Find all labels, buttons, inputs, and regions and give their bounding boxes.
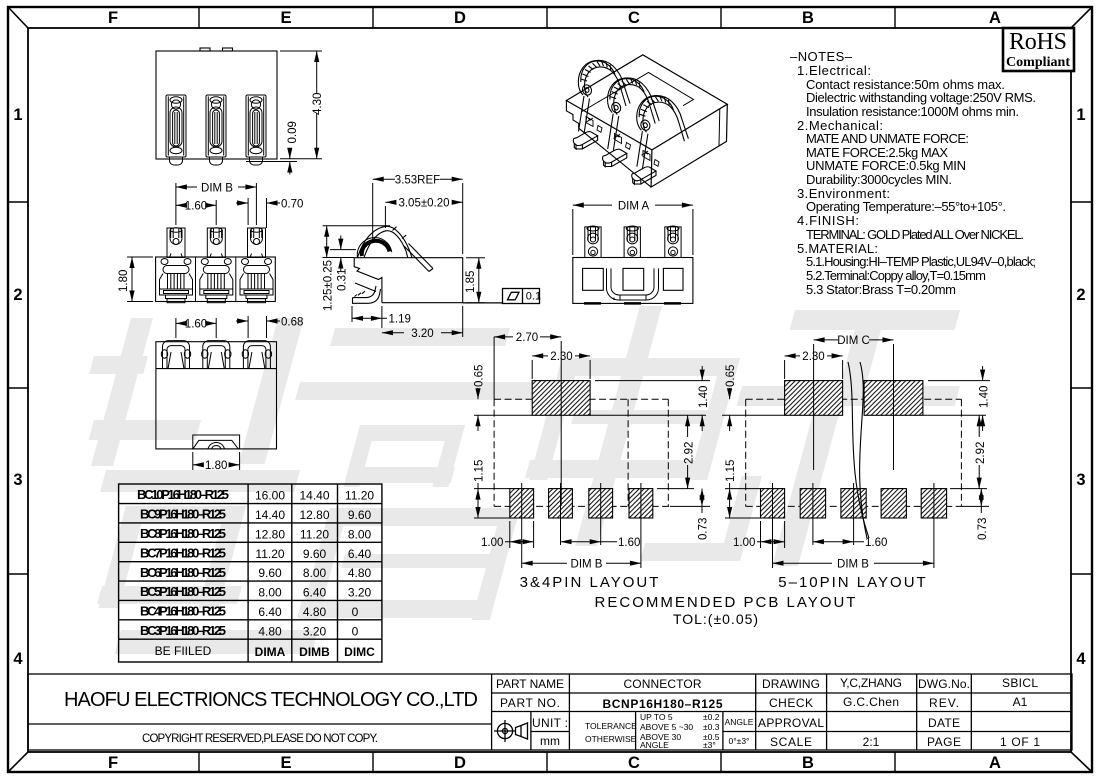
layout2 pad bottom extension left	[722, 414, 785, 416]
svg-text:COPYRIGHT RESERVED,PLEASE DO N: COPYRIGHT RESERVED,PLEASE DO NOT COPY.	[142, 733, 378, 745]
layout2 big pad 2	[864, 381, 923, 416]
layout1 small pad centerlines	[522, 483, 641, 568]
layout2 small pad 2	[800, 489, 825, 518]
svg-text:DIM B: DIM B	[571, 559, 603, 571]
svg-text:1.15: 1.15	[725, 460, 737, 482]
svg-text:0: 0	[352, 624, 359, 638]
view3 dim 1.80	[193, 452, 240, 470]
svg-text:UNMATE FORCE:0.5kg MIN: UNMATE FORCE:0.5kg MIN	[806, 158, 966, 173]
svg-text:Insulation resistance:1000M oh: Insulation resistance:1000M ohms min.	[806, 104, 1019, 119]
svg-text:4.80: 4.80	[303, 605, 327, 619]
layout2 dim 0.73	[980, 489, 982, 513]
layout2 big pad centerlines	[814, 344, 894, 470]
svg-text:BC4P16H180–R125: BC4P16H180–R125	[140, 604, 226, 619]
svg-text:5.2.Terminal:Coppy alloy,T=0.1: 5.2.Terminal:Coppy alloy,T=0.15mm	[806, 268, 986, 283]
svg-text:11.20: 11.20	[300, 527, 329, 541]
svg-text:PART NAME: PART NAME	[496, 677, 564, 691]
zone row dividers right	[1071, 202, 1092, 574]
svg-text:11.20: 11.20	[255, 547, 284, 561]
svg-text:F: F	[108, 9, 118, 27]
view2 dim 1.60	[176, 200, 216, 225]
svg-text:1.80: 1.80	[118, 270, 130, 292]
side dim 3.05±0.20	[385, 202, 462, 228]
projection symbol	[494, 720, 528, 742]
svg-text:5.3 Stator:Brass T=0.20mm: 5.3 Stator:Brass T=0.20mm	[806, 282, 956, 297]
layout2 dashed component outline	[746, 399, 962, 506]
svg-text:1.25±0.25: 1.25±0.25	[323, 260, 335, 311]
svg-text:B: B	[802, 754, 814, 772]
svg-text:Dielectric withstanding voltag: Dielectric withstanding voltage:250V RMS…	[806, 90, 1036, 105]
layout2 dim 0.65	[729, 388, 731, 431]
iso slot marks on front face	[586, 117, 659, 167]
svg-text:DWG.No.: DWG.No.	[918, 677, 970, 691]
svg-text:DIM B: DIM B	[837, 559, 869, 571]
side dim 0.31	[330, 236, 356, 272]
svg-text:BC8P16H180–R125: BC8P16H180–R125	[140, 526, 226, 541]
layout1 dim 1.60 pitch	[561, 541, 618, 543]
svg-text:1.00: 1.00	[481, 537, 503, 549]
view2 contact tabs	[167, 228, 266, 258]
RoHS compliant box	[1003, 28, 1074, 71]
svg-text:MATE AND UNMATE FORCE:: MATE AND UNMATE FORCE:	[806, 131, 969, 146]
layout1 dim 2.70	[494, 337, 561, 399]
svg-text:9.60: 9.60	[348, 508, 372, 522]
svg-text:4: 4	[1076, 650, 1086, 668]
zone numbers left 1 2 3 4	[13, 106, 23, 668]
svg-text:Durability:3000cycles MIN.: Durability:3000cycles MIN.	[806, 172, 952, 187]
layout2 dim DIM B	[773, 562, 934, 564]
svg-text:DIMA: DIMA	[255, 645, 286, 659]
svg-text:12.80: 12.80	[299, 508, 329, 522]
iso contact 1 (arch + strap + foot)	[573, 60, 630, 149]
side view spring arch	[358, 226, 434, 271]
svg-text:1.Electrical:: 1.Electrical:	[797, 63, 871, 78]
svg-text:G.C.Chen: G.C.Chen	[843, 695, 899, 709]
svg-text:1.60: 1.60	[618, 537, 640, 549]
svg-text:12.80: 12.80	[255, 527, 285, 541]
layout2 dim 1.40	[982, 366, 984, 431]
svg-text:BC10P16H180–R125: BC10P16H180–R125	[137, 487, 229, 502]
svg-text:1.40: 1.40	[978, 386, 990, 408]
svg-text:DATE: DATE	[928, 716, 960, 730]
layout2 small pad 4	[881, 489, 906, 518]
corner diagonal bottom-left	[8, 752, 28, 772]
svg-text:±0.2: ±0.2	[703, 712, 720, 722]
svg-text:14.40: 14.40	[255, 508, 285, 522]
svg-text:RECOMMENDED PCB LAYOUT: RECOMMENDED PCB LAYOUT	[595, 594, 858, 611]
dim DIM A	[573, 205, 693, 255]
side dim 1.25±0.25	[323, 226, 391, 258]
svg-text:4.30: 4.30	[312, 93, 324, 115]
svg-text:0.65: 0.65	[725, 365, 737, 387]
view3 top contacts	[161, 341, 271, 369]
svg-text:BC9P16H180–R125: BC9P16H180–R125	[140, 507, 226, 522]
svg-text:mm: mm	[540, 734, 560, 748]
svg-text:BC7P16H180–R125: BC7P16H180–R125	[140, 545, 226, 560]
zone numbers right	[1076, 106, 1086, 668]
svg-text:BC5P16H180–R125: BC5P16H180–R125	[140, 584, 226, 599]
watermark zi (light gray)	[737, 310, 960, 566]
zone letters top F E D C B A	[108, 9, 1001, 27]
view2 dim 1.80	[127, 257, 153, 302]
iso top opening	[582, 73, 694, 156]
layout2 big pad 1	[785, 381, 843, 416]
svg-text:Compliant: Compliant	[1006, 55, 1070, 70]
svg-text:3.20: 3.20	[411, 328, 433, 340]
svg-text:±3°: ±3°	[703, 740, 716, 750]
svg-text:3.53REF: 3.53REF	[395, 175, 440, 187]
svg-text:1: 1	[13, 106, 22, 124]
dimA feet marks	[584, 302, 681, 305]
layout1 dim 0.73	[701, 489, 703, 513]
layout2 dim 1.00	[757, 521, 785, 548]
view2 dim DIM B	[176, 183, 257, 225]
layout2 dim 1.60 pitch	[813, 541, 864, 543]
svg-text:OTHERWISE: OTHERWISE	[585, 734, 637, 744]
svg-text:SBICL: SBICL	[1002, 676, 1038, 690]
corner diagonal top-left	[8, 7, 28, 28]
svg-text:1.40: 1.40	[698, 386, 710, 408]
iso body front-left face	[566, 101, 651, 188]
svg-text:2: 2	[1076, 286, 1085, 304]
layout2 dim 2.92	[978, 415, 980, 488]
svg-text:UNIT :: UNIT :	[532, 716, 568, 730]
svg-text:9.60: 9.60	[258, 566, 282, 580]
svg-text:UP TO 5: UP TO 5	[640, 712, 673, 722]
svg-text:C: C	[628, 9, 640, 27]
svg-text:0.1: 0.1	[526, 291, 541, 303]
title block labels	[496, 676, 1040, 749]
dimA body	[573, 258, 693, 304]
svg-text:4.80: 4.80	[258, 624, 282, 638]
svg-text:DIM A: DIM A	[618, 201, 650, 213]
svg-text:A: A	[989, 754, 1001, 772]
svg-text:APPROVAL: APPROVAL	[758, 716, 824, 730]
watermark hao (light gray)	[89, 318, 318, 654]
side dim 1.19	[352, 306, 387, 328]
svg-text:A1: A1	[1013, 695, 1028, 709]
zone letters bottom	[108, 754, 1001, 772]
svg-text:E: E	[280, 9, 291, 27]
svg-text:SCALE: SCALE	[770, 735, 812, 749]
svg-text:CHECK: CHECK	[769, 696, 813, 710]
iso contact 3	[632, 96, 689, 185]
svg-text:PAGE: PAGE	[927, 735, 961, 749]
svg-text:RoHS: RoHS	[1009, 29, 1067, 55]
svg-text:DIMC: DIMC	[344, 645, 375, 659]
svg-text:PART NO.: PART NO.	[500, 696, 560, 710]
svg-text:0.73: 0.73	[977, 518, 989, 540]
svg-text:F: F	[108, 754, 118, 772]
svg-text:Y,C,ZHANG: Y,C,ZHANG	[840, 676, 902, 690]
side dim 3.53REF	[373, 179, 463, 254]
layout1 dim 2.30	[532, 356, 590, 379]
svg-text:TERMINAL: GOLD Plated ALL Ove: TERMINAL: GOLD Plated ALL Over NICKEL.	[806, 227, 1024, 242]
title block	[28, 674, 1072, 750]
svg-text:BC3P16H180–R125: BC3P16H180–R125	[140, 623, 226, 638]
svg-text:CONNECTOR: CONNECTOR	[624, 677, 702, 691]
svg-text:14.40: 14.40	[299, 489, 329, 503]
layout1 small pad 3	[589, 489, 613, 518]
svg-text:BE FIILED: BE FIILED	[155, 644, 212, 658]
svg-text:2: 2	[13, 286, 22, 304]
layout1 big pad	[532, 381, 590, 416]
svg-text:ABOVE 5 ~30: ABOVE 5 ~30	[640, 722, 693, 732]
svg-text:3: 3	[13, 471, 22, 489]
svg-text:3.20: 3.20	[348, 586, 372, 600]
svg-text:11.20: 11.20	[345, 489, 374, 503]
layout1 small pad 2	[549, 489, 573, 518]
svg-text:5.1.Housing:HI–TEMP Plastic,UL: 5.1.Housing:HI–TEMP Plastic,UL94V–0,blac…	[806, 254, 1036, 269]
svg-text:DIM C: DIM C	[837, 335, 870, 347]
view1 contact slots	[166, 95, 266, 165]
layout1 dim 1.00	[505, 521, 534, 548]
layout1 pad extensions right	[590, 381, 710, 507]
corner diagonal top-right	[1071, 7, 1092, 28]
svg-text:3.05±0.20: 3.05±0.20	[398, 198, 449, 210]
side view bottom foot	[353, 283, 381, 303]
view1 housing body	[156, 48, 277, 159]
svg-text:DRAWING: DRAWING	[762, 677, 820, 691]
svg-text:4.FINISH:: 4.FINISH:	[797, 213, 859, 228]
svg-text:2:1: 2:1	[863, 735, 880, 749]
svg-text:C: C	[628, 754, 640, 772]
svg-text:1: 1	[1076, 106, 1085, 124]
svg-text:4: 4	[13, 650, 23, 668]
svg-text:1 OF 1: 1 OF 1	[1000, 735, 1040, 749]
svg-text:2.70: 2.70	[516, 332, 538, 344]
layout2 break curves	[848, 362, 869, 538]
view2 body	[156, 257, 276, 302]
svg-text:4.80: 4.80	[348, 566, 372, 580]
svg-text:2.92: 2.92	[975, 442, 987, 464]
view2 dim 0.70	[236, 198, 280, 228]
layout1 big pad centerline	[560, 341, 562, 506]
svg-text:TOL:(±0.05): TOL:(±0.05)	[673, 611, 759, 627]
view3 body	[156, 342, 277, 449]
svg-text:9.60: 9.60	[303, 547, 327, 561]
side view body	[354, 258, 463, 303]
notes text block	[790, 49, 1036, 297]
svg-text:D: D	[454, 9, 466, 27]
svg-text:5–10PIN LAYOUT: 5–10PIN LAYOUT	[778, 574, 927, 591]
svg-text:A: A	[989, 9, 1001, 27]
layout2 small pad 3	[841, 489, 866, 518]
flatness feature control frame	[463, 289, 540, 304]
iso contact 2	[603, 78, 660, 167]
svg-text:2.30: 2.30	[550, 351, 572, 363]
svg-text:0.09: 0.09	[287, 121, 299, 143]
view3 dim 0.68	[236, 316, 280, 338]
svg-text:±0.3: ±0.3	[703, 722, 720, 732]
svg-text:2.92: 2.92	[683, 442, 695, 464]
svg-text:Operating Temperature:–55°to+1: Operating Temperature:–55°to+105°.	[806, 199, 1006, 214]
svg-text:8.00: 8.00	[258, 586, 282, 600]
svg-text:3&4PIN LAYOUT: 3&4PIN LAYOUT	[520, 574, 661, 591]
svg-text:1.00: 1.00	[733, 537, 755, 549]
layout1 dashed component outline	[494, 399, 670, 506]
layout2 dim 2.30	[785, 356, 843, 379]
svg-text:ANGLE: ANGLE	[725, 717, 754, 727]
svg-text:DIM B: DIM B	[201, 183, 233, 195]
view2 spring contacts inside body	[160, 257, 274, 303]
side dim 1.85	[466, 258, 485, 303]
svg-text:6.40: 6.40	[258, 605, 282, 619]
svg-text:6.40: 6.40	[303, 586, 327, 600]
view3 bottom latch	[193, 435, 240, 449]
side view contact curl (thick)	[362, 241, 390, 256]
layout2 small pad 1	[761, 489, 785, 518]
watermark dian (light gray)	[525, 306, 762, 561]
svg-text:0.73: 0.73	[698, 518, 710, 540]
svg-text:1.85: 1.85	[465, 271, 477, 293]
svg-text:8.00: 8.00	[303, 566, 327, 580]
view1 dim 4.30	[280, 51, 322, 159]
view1 dim 0.09	[246, 150, 297, 175]
svg-text:1.15: 1.15	[474, 460, 486, 482]
dimA U channel	[607, 268, 659, 300]
view3 dim 1.60	[176, 318, 216, 338]
svg-text:B: B	[802, 9, 814, 27]
svg-text:3: 3	[1076, 471, 1085, 489]
svg-text:E: E	[280, 754, 291, 772]
layout1 dim 0.65	[477, 388, 479, 431]
svg-text:3.20: 3.20	[303, 624, 327, 638]
layout1 dim 2.92	[687, 415, 689, 488]
zone column dividers bottom	[199, 752, 895, 772]
dimA tabs	[585, 226, 681, 258]
svg-text:6.40: 6.40	[348, 547, 372, 561]
svg-text:8.00: 8.00	[348, 527, 372, 541]
svg-text:D: D	[454, 754, 466, 772]
svg-text:0°±3°: 0°±3°	[729, 736, 750, 746]
zone column dividers top	[199, 7, 895, 28]
zone row dividers left	[8, 202, 28, 574]
part number table	[119, 484, 382, 662]
svg-text:0.65: 0.65	[474, 365, 486, 387]
svg-text:TOLERANCE: TOLERANCE	[585, 721, 637, 731]
layout1 dim 1.40	[701, 366, 703, 431]
tolerance cell	[585, 712, 754, 750]
layout2 dim 1.15	[725, 483, 761, 518]
svg-text:1.60: 1.60	[865, 537, 887, 549]
svg-text:–NOTES–: –NOTES–	[790, 49, 853, 64]
iso body right face	[651, 104, 727, 187]
svg-text:REV.: REV.	[929, 696, 959, 710]
svg-text:1.19: 1.19	[389, 314, 411, 326]
layout1 small pad 4	[629, 489, 653, 518]
svg-text:0.31: 0.31	[337, 269, 349, 291]
layout1 pad bottom extension left	[474, 414, 532, 416]
dimA windows	[583, 268, 683, 290]
svg-text:0.70: 0.70	[281, 199, 303, 211]
svg-text:BCNP16H180–R125: BCNP16H180–R125	[603, 697, 723, 711]
side dim 3.20	[382, 306, 463, 337]
watermark fu (light gray)	[295, 328, 535, 620]
corner diagonal bottom-right	[1071, 752, 1092, 772]
svg-text:HAOFU ELECTRIONCS TECHNOLOGY C: HAOFU ELECTRIONCS TECHNOLOGY CO.,LTD	[64, 689, 478, 711]
svg-text:BC6P16H180–R125: BC6P16H180–R125	[140, 565, 226, 580]
layout2 dim DIM C	[814, 339, 894, 341]
layout1 dim DIM B	[522, 562, 641, 564]
layout1 dim 1.15	[474, 483, 510, 518]
svg-text:1.60: 1.60	[185, 319, 207, 331]
svg-text:0.68: 0.68	[281, 317, 303, 329]
svg-text:16.00: 16.00	[255, 489, 285, 503]
svg-text:DIMB: DIMB	[299, 645, 330, 659]
svg-text:0: 0	[352, 605, 359, 619]
layout2 pad extensions right	[923, 381, 990, 507]
iso body top face	[566, 55, 727, 150]
svg-text:1.60: 1.60	[185, 201, 207, 213]
layout2 small pad centerlines	[773, 483, 934, 568]
layout2 small pad 5	[921, 489, 946, 518]
layout1 small pad 1	[510, 489, 534, 518]
svg-text:1.80: 1.80	[205, 460, 227, 472]
svg-text:2.30: 2.30	[802, 351, 824, 363]
svg-text:ANGLE: ANGLE	[640, 740, 669, 750]
